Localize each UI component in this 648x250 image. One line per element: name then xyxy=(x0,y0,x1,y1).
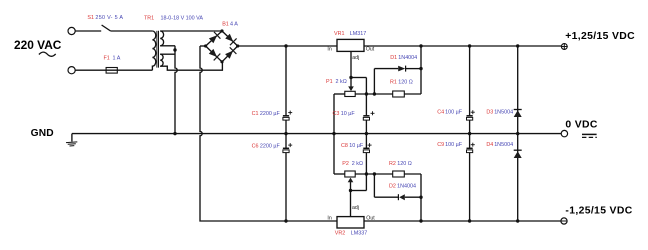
svg-text:1N4004: 1N4004 xyxy=(397,183,416,189)
svg-text:10 µF: 10 µF xyxy=(349,143,364,149)
svg-text:R2: R2 xyxy=(389,161,396,167)
svg-text:Out: Out xyxy=(366,216,375,222)
svg-text:R1: R1 xyxy=(390,79,397,85)
svg-text:adj: adj xyxy=(352,55,359,61)
svg-text:C6: C6 xyxy=(252,143,259,149)
svg-text:Out: Out xyxy=(366,46,375,52)
svg-text:C8: C8 xyxy=(341,143,348,149)
svg-text:D2: D2 xyxy=(389,183,396,189)
svg-text:+1,25/15 VDC: +1,25/15 VDC xyxy=(565,31,635,42)
svg-text:VR2: VR2 xyxy=(335,231,346,237)
svg-text:2200 µF: 2200 µF xyxy=(260,111,281,117)
svg-text:LM317: LM317 xyxy=(350,31,366,37)
svg-text:100 µF: 100 µF xyxy=(445,142,463,148)
svg-text:In: In xyxy=(327,216,331,222)
svg-text:D1: D1 xyxy=(390,55,397,61)
svg-text:In: In xyxy=(327,46,331,52)
svg-text:220 VAC: 220 VAC xyxy=(14,38,62,52)
svg-text:TR1: TR1 xyxy=(144,16,154,22)
svg-text:D3: D3 xyxy=(486,110,493,116)
svg-text:2 kΩ: 2 kΩ xyxy=(352,161,363,167)
svg-text:2 kΩ: 2 kΩ xyxy=(336,79,347,85)
svg-text:C1: C1 xyxy=(252,111,259,117)
svg-text:18-0-18 V 100 VA: 18-0-18 V 100 VA xyxy=(161,16,204,22)
svg-text:VR1: VR1 xyxy=(334,31,345,37)
svg-text:C3: C3 xyxy=(333,111,340,117)
svg-text:1 A: 1 A xyxy=(113,55,121,61)
svg-text:10 µF: 10 µF xyxy=(341,111,356,117)
svg-text:100 µF: 100 µF xyxy=(445,110,463,116)
svg-text:C9: C9 xyxy=(437,142,444,148)
svg-text:P1: P1 xyxy=(326,79,333,85)
svg-text:C4: C4 xyxy=(437,110,444,116)
svg-text:LM337: LM337 xyxy=(351,231,367,237)
svg-text:120 Ω: 120 Ω xyxy=(397,161,412,167)
svg-text:adj: adj xyxy=(352,205,359,211)
svg-text:P2: P2 xyxy=(342,161,349,167)
svg-text:F1: F1 xyxy=(104,55,110,61)
svg-text:120 Ω: 120 Ω xyxy=(398,79,413,85)
svg-text:4 A: 4 A xyxy=(230,22,238,28)
svg-text:1N5004: 1N5004 xyxy=(494,142,513,148)
svg-text:D4: D4 xyxy=(486,142,493,148)
svg-text:S1: S1 xyxy=(87,15,94,21)
svg-text:B1: B1 xyxy=(222,22,229,28)
svg-text:1N4004: 1N4004 xyxy=(398,55,417,61)
svg-text:1N5004: 1N5004 xyxy=(494,110,513,116)
svg-text:250 V- 5 A: 250 V- 5 A xyxy=(95,15,123,21)
svg-text:-1,25/15 VDC: -1,25/15 VDC xyxy=(565,206,632,217)
svg-text:0 VDC: 0 VDC xyxy=(565,120,597,131)
svg-text:GND: GND xyxy=(31,128,54,139)
svg-text:2200 µF: 2200 µF xyxy=(260,143,281,149)
